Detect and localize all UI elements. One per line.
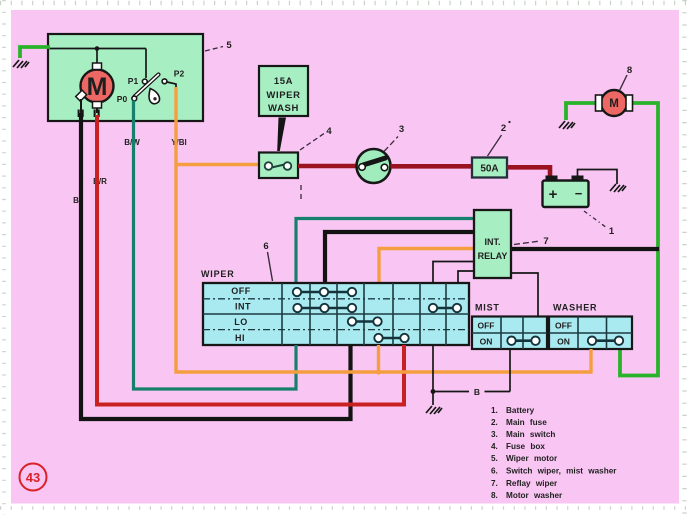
- svg-text:WASHER: WASHER: [553, 303, 597, 313]
- leader line to label 5: [205, 47, 223, 52]
- motor terminal top: [93, 63, 102, 70]
- svg-text:50A: 50A: [480, 164, 498, 175]
- svg-text:4: 4: [326, 126, 332, 137]
- leader line to label 2: [488, 135, 502, 156]
- dashed stub below fuse box: [300, 185, 302, 200]
- ground (washer motor): [559, 121, 575, 129]
- contacts OFF row: [293, 288, 356, 296]
- main fuse 2 box 50A: [472, 158, 507, 178]
- svg-text:WIPER: WIPER: [201, 269, 235, 279]
- svg-text:P1: P1: [128, 76, 139, 86]
- motor terminal left: [76, 90, 87, 101]
- leader line to label 4: [300, 134, 324, 151]
- leader line to label 7: [514, 241, 540, 245]
- intermittent relay 7: [474, 210, 511, 278]
- svg-text:Fuse box: Fuse box: [506, 442, 545, 451]
- svg-text:43: 43: [26, 470, 40, 485]
- svg-text:6.: 6.: [491, 467, 498, 476]
- wire green ground lead top-left: [20, 47, 50, 58]
- ground (table common): [426, 406, 442, 414]
- svg-text:6: 6: [263, 241, 268, 252]
- wire black relay to switch column: [325, 232, 474, 283]
- svg-text:P2: P2: [174, 69, 185, 79]
- fuse box 4: [259, 153, 298, 179]
- svg-text:M: M: [609, 98, 619, 110]
- svg-text:−: −: [575, 186, 583, 201]
- switch lever arm (outlined): [135, 75, 160, 104]
- wire relay underside pin B: [458, 271, 480, 283]
- wire orange from P2 to fuse box 4: [176, 163, 259, 166]
- table row separators: [203, 298, 469, 300]
- washer switch table: [549, 317, 632, 350]
- svg-text:Motor washer: Motor washer: [506, 491, 563, 500]
- svg-text:WIPER: WIPER: [266, 90, 300, 101]
- svg-text:7.: 7.: [491, 479, 498, 488]
- svg-text:Main fuse: Main fuse: [506, 418, 547, 427]
- wire dark red fuse box to main switch: [298, 164, 357, 169]
- wire relay right-bottom to washer table: [511, 273, 538, 317]
- svg-text:2.: 2.: [491, 418, 498, 427]
- wire orange stub table col4 to bus: [377, 345, 380, 372]
- svg-text:Reflay wiper: Reflay wiper: [506, 479, 558, 488]
- wire black relay output to washer motor net: [511, 247, 659, 251]
- contact P2: [162, 79, 167, 84]
- svg-text:Y/Bl: Y/Bl: [171, 138, 187, 147]
- contacts LO row: [348, 317, 382, 325]
- svg-text:1: 1: [609, 226, 615, 237]
- wire green washer motor right run: [620, 103, 658, 376]
- svg-text:8: 8: [627, 65, 632, 76]
- battery 1: [546, 176, 558, 183]
- svg-text:15A: 15A: [274, 76, 293, 87]
- svg-text:Main switch: Main switch: [506, 430, 555, 439]
- wire dark red main fuse to battery: [507, 167, 550, 181]
- svg-text:Battery: Battery: [506, 406, 535, 415]
- connector symbol on black wire: [78, 110, 80, 118]
- svg-text:3: 3: [399, 124, 404, 135]
- svg-text:WASH: WASH: [268, 103, 299, 114]
- svg-text:Wiper motor: Wiper motor: [506, 454, 558, 463]
- svg-text:INT: INT: [235, 302, 251, 312]
- motor washer 8: [601, 90, 627, 116]
- wire green washer motor left to ground: [566, 103, 597, 120]
- wire teal B/W P0 to table col1: [134, 101, 297, 390]
- main switch 3: [357, 149, 391, 183]
- contacts mist ON: [507, 337, 539, 345]
- svg-text:P0: P0: [117, 94, 128, 104]
- contacts washer ON: [588, 337, 623, 345]
- contacts INT row: [293, 304, 461, 312]
- svg-text:OFF: OFF: [478, 321, 495, 331]
- contact P1: [142, 79, 147, 84]
- wire orange relay to switch column: [379, 249, 474, 284]
- svg-text:OFF: OFF: [231, 286, 251, 296]
- svg-text:2: 2: [501, 123, 506, 134]
- svg-text:ON: ON: [480, 337, 493, 347]
- svg-text:B: B: [474, 387, 480, 397]
- leader line to label 1: [584, 211, 607, 228]
- svg-text:MIST: MIST: [475, 303, 500, 313]
- wire relay underside pin A: [433, 262, 474, 284]
- mist switch table: [472, 317, 547, 350]
- connector symbol on red wire: [94, 110, 96, 118]
- wire battery negative to ground: [578, 170, 618, 185]
- leader line to label 6: [268, 252, 273, 281]
- ground (battery): [610, 184, 626, 192]
- node orange junction: [376, 369, 381, 374]
- wire motor top lead: [96, 49, 98, 67]
- wire black B motor to table col3: [81, 113, 351, 419]
- svg-text:5: 5: [226, 40, 232, 51]
- legend list: [491, 406, 617, 500]
- wire internal bus from box left edge to P1: [48, 48, 146, 50]
- leader line to label 3: [384, 137, 398, 152]
- svg-text:HI: HI: [235, 333, 245, 343]
- svg-text:OFF: OFF: [555, 321, 572, 331]
- motor terminal bottom: [93, 102, 102, 109]
- motor M (wiper): [81, 70, 114, 103]
- leader line to label 8: [620, 75, 628, 91]
- svg-text:ON: ON: [557, 337, 570, 347]
- wire P1 drop: [145, 49, 147, 79]
- ground (top-left): [13, 60, 29, 68]
- svg-text:3.: 3.: [491, 430, 498, 439]
- node junction motor top: [95, 46, 100, 51]
- wire dark red main switch to main fuse: [391, 164, 473, 169]
- wire thin black table col6 to ground and mist: [432, 345, 434, 405]
- wiper motor assembly box 5: [48, 34, 203, 121]
- svg-text:+: +: [549, 186, 558, 203]
- svg-text:INT.: INT.: [484, 237, 500, 247]
- wire teal relay to switch column: [296, 219, 474, 284]
- node junction B: [431, 389, 436, 394]
- fuse label box 15A WIPER WASH: [259, 66, 308, 116]
- pointer wedge from 15A label to fuse box: [277, 118, 286, 152]
- page number badge 43: [20, 464, 47, 491]
- contacts HI row: [374, 334, 408, 342]
- wire motor bottom lead: [96, 108, 98, 113]
- svg-text:1.: 1.: [491, 406, 498, 415]
- wire red B/R motor to table col5: [97, 115, 404, 405]
- svg-text:LO: LO: [234, 317, 248, 327]
- svg-text:M: M: [87, 73, 108, 101]
- svg-text:8.: 8.: [491, 491, 498, 500]
- svg-text:5.: 5.: [491, 454, 498, 463]
- table column lines: [282, 283, 446, 345]
- svg-text:4.: 4.: [491, 442, 498, 451]
- svg-text:7: 7: [543, 236, 548, 247]
- wire P2 to orange drop: [167, 82, 176, 121]
- svg-text:RELAY: RELAY: [478, 251, 508, 261]
- contact P0: [132, 96, 137, 101]
- svg-text:Switch wiper, mist washer: Switch wiper, mist washer: [506, 467, 617, 476]
- svg-text:B: B: [73, 196, 79, 205]
- wire orange Y/Bl P2 to washer row: [176, 87, 591, 372]
- switch wiper table 6: [203, 283, 469, 345]
- wire motor left lead: [80, 99, 82, 113]
